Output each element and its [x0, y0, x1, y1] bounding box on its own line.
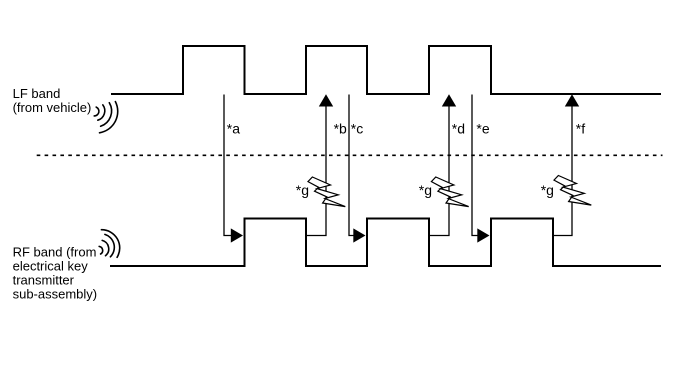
svg-text:*a: *a: [227, 121, 240, 137]
svg-text:*g: *g: [419, 182, 432, 198]
svg-text:*f: *f: [576, 121, 585, 137]
svg-text:*c: *c: [351, 121, 363, 137]
svg-text:*g: *g: [296, 182, 309, 198]
svg-text:electrical key: electrical key: [13, 259, 89, 274]
svg-text:*g: *g: [541, 182, 554, 198]
svg-text:RF band (from: RF band (from: [13, 245, 97, 260]
svg-text:transmitter: transmitter: [13, 273, 75, 288]
svg-text:LF band: LF band: [13, 86, 61, 101]
svg-text:sub-assembly): sub-assembly): [13, 287, 98, 302]
svg-text:*b: *b: [334, 121, 347, 137]
svg-text:*d: *d: [452, 121, 465, 137]
svg-text:*e: *e: [476, 121, 489, 137]
svg-text:(from vehicle): (from vehicle): [13, 100, 92, 115]
